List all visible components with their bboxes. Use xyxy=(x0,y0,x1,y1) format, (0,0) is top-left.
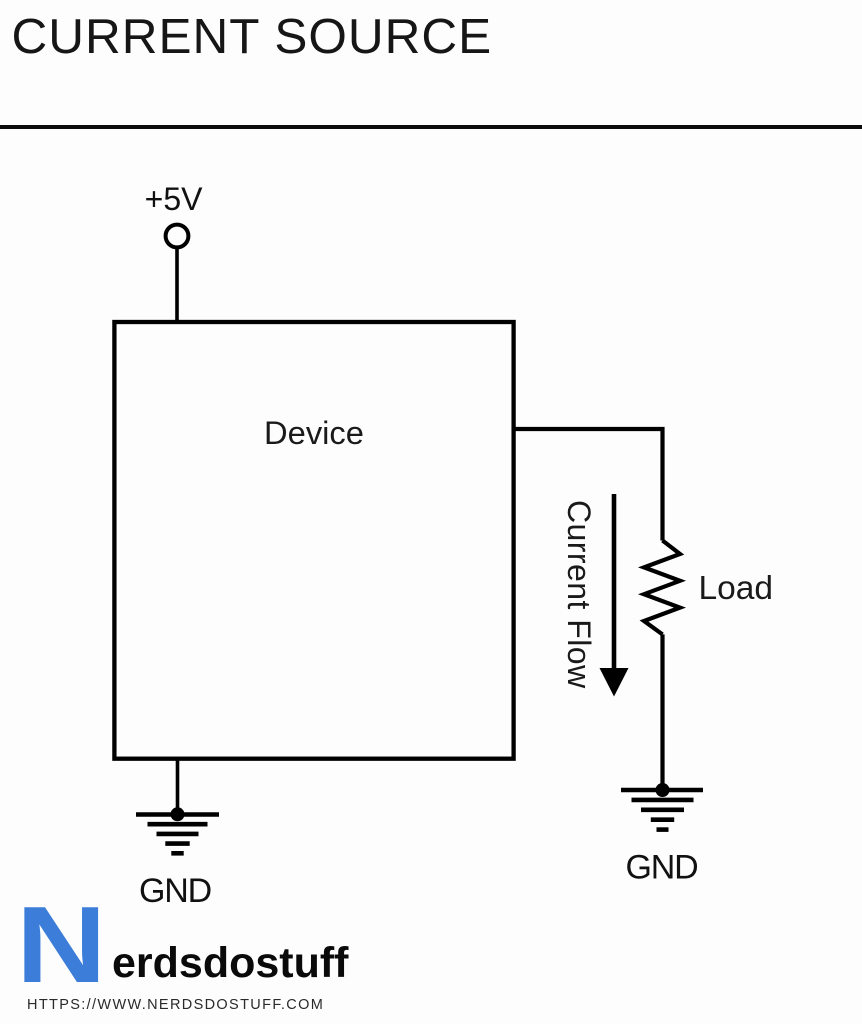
device box U1 xyxy=(114,322,513,759)
horizontal divider rule xyxy=(0,125,862,129)
junction dot right ground xyxy=(656,783,670,797)
wire device bottom to ground xyxy=(176,760,180,814)
ground symbol right xyxy=(621,790,703,830)
resistor Load xyxy=(644,541,680,635)
title CURRENT SOURCE xyxy=(12,12,493,62)
logo text erdsdostuff xyxy=(112,933,349,993)
wire device right to load top xyxy=(516,429,663,541)
wire +5V terminal to device top xyxy=(175,247,179,321)
wire load bottom to ground xyxy=(660,634,664,790)
svg-text:+5V: +5V xyxy=(145,181,203,217)
+5V terminal circle xyxy=(166,225,189,248)
current flow arrowhead xyxy=(600,668,629,697)
logo letter N xyxy=(16,891,107,1000)
logo url xyxy=(27,997,324,1014)
svg-text:GND: GND xyxy=(139,872,211,910)
current flow arrow line xyxy=(612,494,617,670)
svg-text:Load: Load xyxy=(699,570,774,607)
ground symbol left xyxy=(136,815,219,854)
svg-text:Device: Device xyxy=(264,414,364,451)
svg-text:GND: GND xyxy=(626,849,698,887)
svg-text:Current Flow: Current Flow xyxy=(561,500,597,689)
junction dot left ground xyxy=(171,807,185,821)
